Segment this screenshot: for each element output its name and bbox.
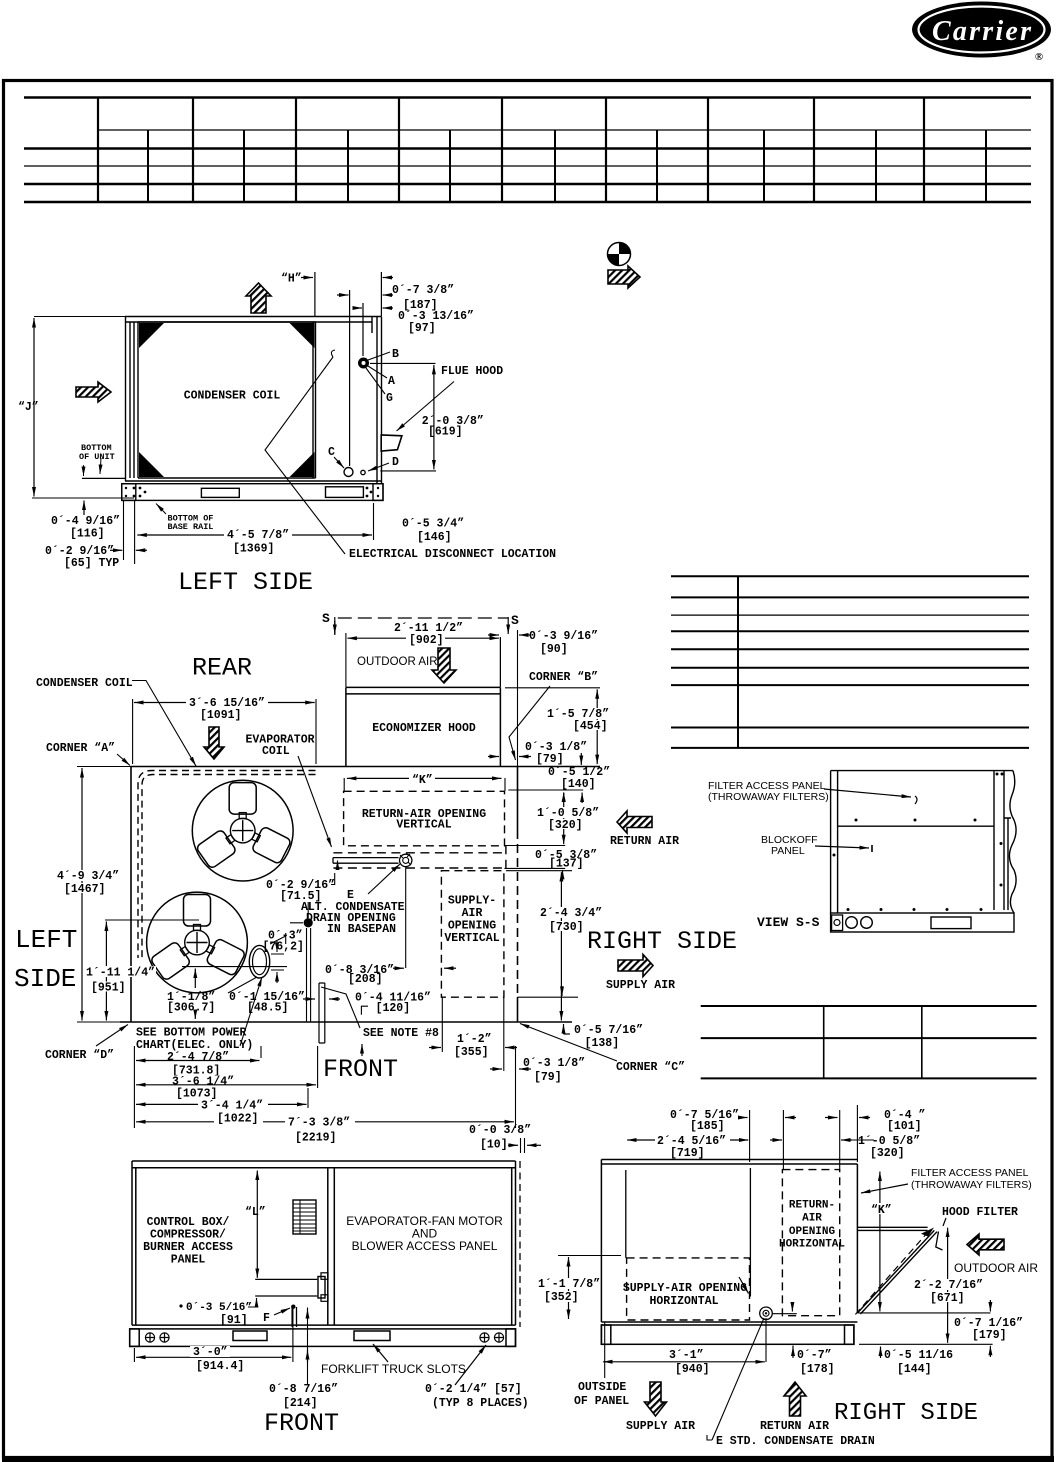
svg-text:FRONT: FRONT: [264, 1409, 339, 1438]
svg-text:S: S: [511, 613, 519, 628]
svg-text:CORNER “B”: CORNER “B”: [529, 671, 598, 684]
return air opening horizontal box: [782, 1170, 839, 1316]
svg-text:CONTROL BOX/: CONTROL BOX/: [147, 1216, 230, 1229]
power oval: [249, 945, 269, 978]
bottom line ext right: [857, 1313, 992, 1344]
svg-text:0´-7 3/8”: 0´-7 3/8”: [392, 284, 454, 297]
base rail right side: [601, 1325, 854, 1344]
svg-text:“K”: “K”: [871, 1204, 892, 1217]
dim 2-11 1/2: [346, 633, 501, 687]
svg-text:[91]: [91]: [220, 1314, 248, 1327]
svg-text:[306.7]: [306.7]: [167, 1002, 215, 1015]
svg-text:SEE BOTTOM POWER: SEE BOTTOM POWER: [136, 1027, 247, 1040]
svg-text:FRONT: FRONT: [323, 1055, 398, 1084]
condensate drain: [760, 1307, 773, 1320]
svg-text:0´-2 1/4” [57]: 0´-2 1/4” [57]: [425, 1383, 522, 1396]
svg-text:0´-5 11/16: 0´-5 11/16: [884, 1349, 953, 1362]
svg-text:0´-5 7/16”: 0´-5 7/16”: [574, 1024, 643, 1037]
svg-text:FLUE HOOD: FLUE HOOD: [441, 365, 503, 378]
svg-text:[352]: [352]: [544, 1291, 579, 1304]
base rail: [122, 484, 383, 501]
svg-text:[454]: [454]: [573, 720, 608, 733]
svg-text:OUTDOOR AIR: OUTDOOR AIR: [954, 1261, 1038, 1275]
svg-text:[1369]: [1369]: [233, 543, 274, 556]
unit box right side: [601, 1160, 857, 1323]
dim 1-5 7/8: [505, 687, 600, 689]
dim 0-5 7/16: [517, 996, 578, 998]
svg-text:[76,2]: [76,2]: [263, 941, 304, 954]
supply air bottom: [645, 1382, 667, 1416]
svg-text:S: S: [322, 611, 330, 626]
see note arrow: [361, 1044, 363, 1056]
flue hood shape: [381, 435, 402, 451]
right side view: [535, 1105, 1038, 1448]
svg-text:3´-0”: 3´-0”: [193, 1346, 228, 1359]
svg-text:2´-4 7/8”: 2´-4 7/8”: [167, 1051, 229, 1064]
svg-text:OF UNIT: OF UNIT: [79, 452, 115, 462]
left side view: [18, 272, 556, 597]
front view: [130, 1044, 541, 1438]
svg-text:CORNER “A”: CORNER “A”: [46, 742, 115, 755]
svg-text:VIEW S-S: VIEW S-S: [757, 915, 820, 930]
dim 1-0 5/8: [563, 793, 565, 845]
dim 2-4 3/4: [506, 870, 572, 872]
svg-text:SUPPLY AIR: SUPPLY AIR: [626, 1420, 695, 1433]
unit outline plan: [120, 767, 600, 1023]
svg-text:®: ®: [1035, 51, 1043, 63]
condenser coil dashed: [138, 771, 316, 959]
svg-text:COMPRESSOR/: COMPRESSOR/: [150, 1229, 226, 1242]
svg-text:4´-9 3/4”: 4´-9 3/4”: [57, 870, 119, 883]
svg-text:[120]: [120]: [376, 1002, 411, 1015]
outdoor air arrow: [967, 1234, 1004, 1255]
svg-text:[10]: [10]: [480, 1139, 508, 1152]
outside of panel: [604, 1322, 606, 1378]
svg-text:RIGHT SIDE: RIGHT SIDE: [587, 927, 737, 956]
svg-text:OUTSIDE: OUTSIDE: [578, 1381, 626, 1394]
svg-text:[185]: [185]: [690, 1120, 725, 1133]
panel outline: [831, 771, 1016, 913]
svg-text:SUPPLY-: SUPPLY-: [448, 895, 496, 908]
svg-text:RETURN AIR: RETURN AIR: [760, 1420, 829, 1433]
svg-text:E STD. CONDENSATE DRAIN: E STD. CONDENSATE DRAIN: [716, 1435, 875, 1448]
svg-text:ECONOMIZER HOOD: ECONOMIZER HOOD: [372, 722, 476, 735]
carrier logo: [912, 2, 1051, 64]
svg-text:(TYP 8 PLACES): (TYP 8 PLACES): [432, 1397, 529, 1410]
return air bottom: [784, 1382, 806, 1416]
svg-text:HORIZONTAL: HORIZONTAL: [779, 1239, 845, 1251]
supply air opening box: [441, 871, 504, 998]
dim 1-1 7/8 left of right side view: [558, 1255, 621, 1257]
svg-text:OF PANEL: OF PANEL: [574, 1395, 629, 1408]
dim 4-5 7/8: [373, 503, 375, 540]
svg-text:[79]: [79]: [534, 1071, 562, 1084]
hood: [857, 1227, 927, 1230]
svg-text:[101]: [101]: [887, 1120, 922, 1133]
louver vent: [293, 1200, 316, 1234]
svg-text:VERTICAL: VERTICAL: [444, 932, 499, 945]
economizer hood: [346, 687, 501, 766]
svg-text:IN BASEPAN: IN BASEPAN: [327, 923, 396, 936]
svg-text:[178]: [178]: [800, 1363, 835, 1376]
svg-text:0´-3 9/16”: 0´-3 9/16”: [529, 630, 598, 643]
svg-text:0´-4 9/16”: 0´-4 9/16”: [51, 515, 120, 528]
dim 2-2 7/16: [947, 1228, 949, 1343]
dim 3-0: [134, 1308, 293, 1362]
svg-text:[320]: [320]: [548, 819, 583, 832]
svg-text:Carrier: Carrier: [932, 16, 1032, 47]
svg-text:LEFT: LEFT: [15, 925, 77, 955]
electrical disconnect: [265, 357, 345, 554]
svg-text:OPENING: OPENING: [789, 1226, 836, 1238]
bottom of base rail note: [156, 504, 166, 515]
svg-text:REAR: REAR: [192, 654, 252, 683]
return box bottom ext: [504, 845, 565, 847]
svg-text:AIR: AIR: [462, 907, 483, 920]
K dim right: [879, 1172, 881, 1312]
svg-text:[902]: [902]: [409, 634, 444, 647]
supply air label: [618, 955, 653, 977]
svg-text:[1467]: [1467]: [64, 883, 105, 896]
svg-text:D: D: [392, 456, 399, 469]
svg-text:HORIZONTAL: HORIZONTAL: [649, 1295, 718, 1308]
svg-text:RIGHT SIDE: RIGHT SIDE: [834, 1400, 978, 1427]
svg-text:OUTDOOR AIR: OUTDOOR AIR: [357, 656, 438, 668]
dim 2-4 7/8: [164, 1051, 234, 1062]
dim arrows near oval: [271, 954, 284, 970]
svg-text:BURNER ACCESS: BURNER ACCESS: [143, 1241, 233, 1254]
svg-text:4´-5 7/8”: 4´-5 7/8”: [227, 529, 289, 542]
svg-text:[90]: [90]: [540, 643, 568, 656]
svg-text:G: G: [386, 392, 393, 405]
K dim: [347, 777, 502, 779]
svg-text:CORNER “D”: CORNER “D”: [45, 1049, 114, 1062]
north symbol: [608, 243, 641, 289]
svg-text:[208]: [208]: [348, 973, 383, 986]
dim 1-11 1/4: [105, 919, 199, 921]
dim 3-6 15/16: [133, 699, 316, 764]
dim 0-5 3/8: [532, 849, 594, 860]
svg-text:0´-5 3/4”: 0´-5 3/4”: [402, 518, 464, 531]
corner gussets: [139, 323, 315, 477]
dim 4-9 3/4 left: [77, 767, 131, 1023]
svg-text:3´-4 1/4”: 3´-4 1/4”: [201, 1100, 263, 1113]
svg-text:0´-7”: 0´-7”: [797, 1349, 832, 1362]
right tables: [671, 576, 1037, 1078]
dim 0-7 178: [792, 1346, 794, 1359]
svg-text:CONDENSER COIL: CONDENSER COIL: [36, 677, 133, 690]
svg-text:[320]: [320]: [870, 1147, 905, 1160]
svg-text:[116]: [116]: [70, 528, 105, 541]
svg-text:COIL: COIL: [262, 745, 290, 758]
svg-text:PANEL: PANEL: [171, 1254, 206, 1267]
power dot: [307, 928, 311, 1022]
svg-text:SIDE: SIDE: [14, 964, 76, 994]
up hatch arrow: [246, 283, 271, 313]
svg-text:B: B: [392, 348, 399, 361]
svg-text:2´-2 7/16”: 2´-2 7/16”: [914, 1279, 983, 1292]
svg-text:[97]: [97]: [408, 322, 436, 335]
svg-text:F: F: [263, 1312, 270, 1325]
svg-text:RETURN-: RETURN-: [789, 1200, 835, 1212]
svg-text:CORNER “C”: CORNER “C”: [616, 1061, 685, 1074]
svg-text:LEFT SIDE: LEFT SIDE: [178, 568, 313, 597]
svg-text:7´-3 3/8”: 7´-3 3/8”: [288, 1117, 350, 1130]
svg-text:[2219]: [2219]: [295, 1132, 336, 1145]
svg-text:3´-1”: 3´-1”: [669, 1349, 704, 1362]
svg-text:[1091]: [1091]: [200, 709, 241, 722]
unit outline: [125, 317, 382, 485]
svg-text:AIR: AIR: [802, 1213, 822, 1225]
svg-text:0´-0 3/8”: 0´-0 3/8”: [469, 1124, 531, 1137]
svg-text:CONDENSER COIL: CONDENSER COIL: [184, 390, 281, 403]
svg-text:[951]: [951]: [91, 982, 126, 995]
svg-text:HOOD FILTER: HOOD FILTER: [942, 1206, 1018, 1219]
header table: [24, 98, 1031, 203]
fan top: [192, 780, 293, 881]
svg-text:[79]: [79]: [536, 753, 564, 766]
svg-text:1´-1 7/8”: 1´-1 7/8”: [538, 1278, 600, 1291]
flue circles: [358, 358, 369, 369]
svg-text:OPENING: OPENING: [448, 920, 496, 933]
top dims: [627, 1139, 748, 1141]
view s-s: [708, 771, 1016, 932]
svg-text:PANEL: PANEL: [771, 845, 805, 857]
svg-text:SUPPLY AIR: SUPPLY AIR: [606, 979, 675, 992]
svg-text:BLOWER ACCESS PANEL: BLOWER ACCESS PANEL: [352, 1239, 498, 1253]
supply air opening box: [627, 1258, 750, 1320]
dim 2-0 3/8: [370, 363, 436, 471]
bottom rail: [831, 913, 1014, 932]
svg-text:[179]: [179]: [972, 1329, 1007, 1342]
svg-text:RETURN AIR: RETURN AIR: [610, 835, 679, 848]
svg-text:“J”: “J”: [18, 401, 39, 414]
svg-text:[146]: [146]: [417, 531, 452, 544]
svg-text:A: A: [388, 375, 395, 388]
svg-text:FORKLIFT TRUCK SLOTS: FORKLIFT TRUCK SLOTS: [321, 1362, 466, 1376]
right hatch arrow: [76, 382, 111, 402]
svg-text:[914.4]: [914.4]: [196, 1360, 244, 1373]
svg-text:[940]: [940]: [675, 1363, 710, 1376]
svg-text:“L”: “L”: [245, 1206, 266, 1219]
svg-text:VERTICAL: VERTICAL: [396, 819, 451, 832]
drain circle E: [400, 854, 412, 866]
drain stub: [255, 1279, 317, 1296]
bottom dim chain of plan: [134, 1046, 515, 1128]
svg-text:(THROWAWAY FILTERS): (THROWAWAY FILTERS): [708, 791, 829, 803]
fan bottom: [147, 892, 248, 993]
svg-text:BASE RAIL: BASE RAIL: [168, 522, 214, 532]
return air opening box: [344, 791, 505, 846]
svg-text:SUPPLY-AIR OPENING: SUPPLY-AIR OPENING: [623, 1282, 747, 1295]
rear hatch arrow down: [204, 727, 224, 759]
basepan channel: [333, 858, 399, 864]
svg-text:[671]: [671]: [930, 1292, 965, 1305]
front unit box: [132, 1161, 516, 1325]
svg-text:[730]: [730]: [549, 921, 584, 934]
dim 0-3 5/16: [256, 1298, 258, 1303]
svg-text:0´-3 1/8”: 0´-3 1/8”: [523, 1057, 585, 1070]
svg-text:ELECTRICAL DISCONNECT LOCATION: ELECTRICAL DISCONNECT LOCATION: [349, 548, 556, 561]
plan view: [14, 611, 737, 1101]
svg-text:[65] TYP: [65] TYP: [64, 557, 119, 570]
svg-text:[1022]: [1022]: [217, 1113, 258, 1126]
svg-text:[355]: [355]: [454, 1046, 489, 1059]
svg-text:1´-2”: 1´-2”: [457, 1033, 492, 1046]
svg-text:(THROWAWAY FILTERS): (THROWAWAY FILTERS): [911, 1179, 1032, 1191]
dim 3-1: [603, 1361, 765, 1363]
rivets: [833, 773, 1004, 912]
box top ext: [508, 789, 583, 791]
dim 0-5 11/16: [880, 1349, 882, 1358]
base rail front: [130, 1329, 516, 1347]
svg-text:FILTER ACCESS PANEL: FILTER ACCESS PANEL: [911, 1167, 1029, 1179]
svg-text:2´-4 3/4”: 2´-4 3/4”: [540, 907, 602, 920]
svg-text:SEE NOTE #8: SEE NOTE #8: [363, 1027, 439, 1040]
svg-text:[71.5]: [71.5]: [280, 890, 321, 903]
svg-text:“K”: “K”: [412, 774, 433, 787]
svg-text:[144]: [144]: [897, 1363, 932, 1376]
dim 3-6 1/4: [169, 1076, 239, 1087]
svg-text:[719]: [719]: [670, 1147, 705, 1160]
svg-text:[619]: [619]: [428, 426, 463, 439]
labels B A G: [366, 352, 390, 394]
svg-text:0´-3 5/16”: 0´-3 5/16”: [186, 1302, 252, 1314]
return air label: [617, 811, 652, 833]
svg-text:[140]: [140]: [561, 778, 596, 791]
svg-text:1´-11 1/4”: 1´-11 1/4”: [86, 967, 155, 980]
svg-text:“H”: “H”: [281, 273, 302, 286]
svg-text:[138]: [138]: [585, 1037, 620, 1050]
svg-text:0´-8 7/16”: 0´-8 7/16”: [269, 1383, 338, 1396]
